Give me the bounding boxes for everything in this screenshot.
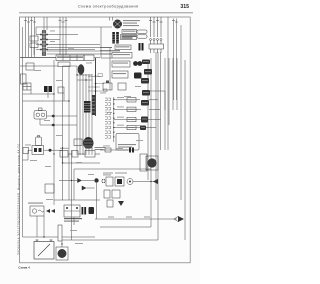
connector X2 (112, 32, 118, 44)
junction block J1 (56, 55, 94, 67)
wire loom center (54, 60, 92, 200)
svg-text:ПРОВЕРКА ЭЛЕКТРООБОРУДОВАНИЯ.: ПРОВЕРКА ЭЛЕКТРООБОРУДОВАНИЯ. Модели с д… (17, 144, 20, 255)
wire drops W1 (26, 17, 35, 57)
voltage regulator U2 (64, 205, 82, 222)
wire bus far right (148, 52, 185, 240)
relay K2 (78, 65, 84, 75)
lamps E1 E2 (133, 61, 142, 78)
node A junction (49, 149, 52, 152)
sensor box BK1 (45, 184, 54, 193)
fuse block F1 (40, 31, 48, 56)
ground (118, 201, 124, 206)
connector boxes X10 X11 (104, 190, 120, 207)
connector pins X7 (105, 98, 111, 138)
connector X9 (74, 139, 82, 146)
left rotated caption (17, 144, 20, 255)
svg-text:Схема 4: Схема 4 (18, 265, 30, 269)
value labels scattered (30, 31, 143, 244)
wire bus right top (168, 17, 181, 200)
wire main feed with junctions (88, 58, 109, 116)
wire interconnects (23, 17, 121, 247)
switch boxes S5 S6 S7 (23, 148, 100, 158)
wire ground bus (62, 227, 158, 240)
starter motor M1 (56, 247, 68, 260)
connector X12 (129, 148, 131, 153)
connector X4 (21, 63, 35, 90)
connector X1 (30, 36, 38, 48)
relay K1 with label boxes (115, 30, 147, 50)
washer reservoir P1 (32, 136, 44, 155)
connector X13 (82, 207, 95, 215)
wire left feed (22, 27, 24, 150)
wire diode to ground bus (96, 183, 98, 219)
battery GB1 (34, 240, 54, 260)
wire inner frame (74, 169, 151, 200)
wire junctions (43, 44, 151, 245)
value labels wiper (103, 173, 113, 174)
control unit U1 (116, 134, 139, 151)
wiper motor M2 (140, 154, 158, 171)
switch boxes S2 S3 S4 (103, 53, 132, 91)
combination meter connector X3 (149, 17, 164, 53)
svg-text:315: 315 (180, 4, 189, 10)
value labels S1 (123, 20, 140, 21)
wire pin bus with junctions (113, 97, 114, 142)
horn B1 (34, 108, 77, 127)
value labels bus (25, 144, 31, 147)
diodes VD1 VD2 (78, 178, 87, 190)
relay K3 (83, 137, 105, 150)
fuse rows F2 F3 F4 F5 (114, 100, 161, 128)
alternator G1 (28, 203, 55, 217)
connector X6 (84, 95, 95, 115)
fusible link F6 (58, 225, 62, 241)
ignition switch S1 (113, 20, 140, 28)
wire to schema continuation (arrow) (95, 216, 184, 222)
svg-text:Схема электрооборудования: Схема электрооборудования (78, 4, 138, 8)
wire to connector (100, 149, 128, 151)
wire horizontals (20, 66, 77, 101)
header rule (19, 12, 193, 14)
connector stack X8 (140, 60, 152, 131)
wire drops W2 (44, 17, 66, 55)
washer pump M3 row (101, 177, 158, 186)
wire fuse branches (36, 35, 100, 50)
diagram frame (20, 17, 191, 263)
connector X5 (44, 86, 48, 92)
